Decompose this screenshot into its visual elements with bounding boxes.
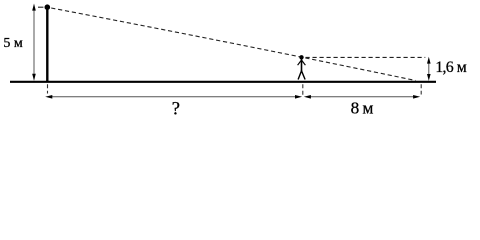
svg-text:?: ?: [172, 99, 180, 119]
svg-text:м: м: [457, 59, 467, 76]
svg-text:5 м: 5 м: [3, 36, 23, 51]
svg-text:1,6: 1,6: [435, 59, 453, 76]
svg-text:8 м: 8 м: [351, 99, 374, 118]
